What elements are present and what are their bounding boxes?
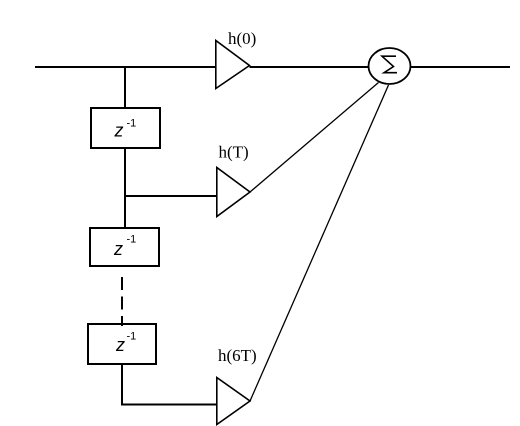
- wire: tap branch to h(T) amplifier: [125, 195, 216, 197]
- svg-text:-1: -1: [127, 118, 137, 130]
- label z^-1 of Z3: [115, 331, 136, 356]
- wire: tap down from input line to first delay: [124, 67, 126, 108]
- wire: h(T) output diagonal to summer: [250, 83, 379, 193]
- svg-text:-1: -1: [127, 331, 137, 343]
- wire: Z1 output down to Z2: [124, 148, 126, 228]
- label z^-1 of Z2: [113, 234, 136, 260]
- delay block Z3 (z^-1): [88, 324, 156, 364]
- amplifier h(T) triangle: [217, 168, 250, 217]
- label z^-1 of Z1: [114, 118, 137, 141]
- svg-text:z: z: [114, 121, 124, 141]
- wire: input line to h(0) amplifier: [35, 66, 215, 68]
- svg-text:-1: -1: [127, 234, 137, 246]
- label h(6T): [218, 346, 257, 365]
- amplifier h(6T) triangle: [217, 378, 250, 425]
- wire: Z3 output down: [121, 364, 123, 405]
- amplifier h(0) triangle: [216, 41, 250, 89]
- delay block Z1 (z^-1): [91, 108, 160, 148]
- label h(0): [228, 29, 256, 48]
- svg-text:h(6T): h(6T): [218, 346, 257, 365]
- sigma symbol of summer: [382, 56, 397, 72]
- wire: dashed continuation (omitted delays): [121, 277, 123, 326]
- wire: h(6T) output diagonal to summer: [250, 85, 389, 401]
- label h(T): [219, 143, 249, 162]
- wire: summer output line: [411, 66, 511, 68]
- svg-text:z: z: [115, 335, 125, 355]
- wire: bottom run to h(6T) amplifier: [121, 404, 216, 406]
- svg-text:h(0): h(0): [228, 29, 256, 48]
- svg-text:z: z: [113, 239, 123, 259]
- svg-text:h(T): h(T): [219, 143, 249, 162]
- summer U1 circle: [369, 48, 411, 84]
- wire: h(0) output to summer: [250, 66, 371, 68]
- delay block Z2 (z^-1): [90, 228, 159, 266]
